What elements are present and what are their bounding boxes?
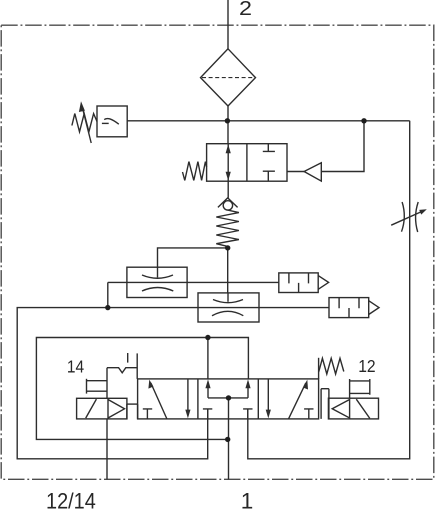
svg-text:12/14: 12/14 [46, 489, 96, 512]
svg-text:14: 14 [67, 356, 84, 376]
svg-text:1: 1 [241, 489, 254, 512]
svg-text:2: 2 [239, 0, 252, 20]
svg-text:12: 12 [358, 356, 375, 376]
